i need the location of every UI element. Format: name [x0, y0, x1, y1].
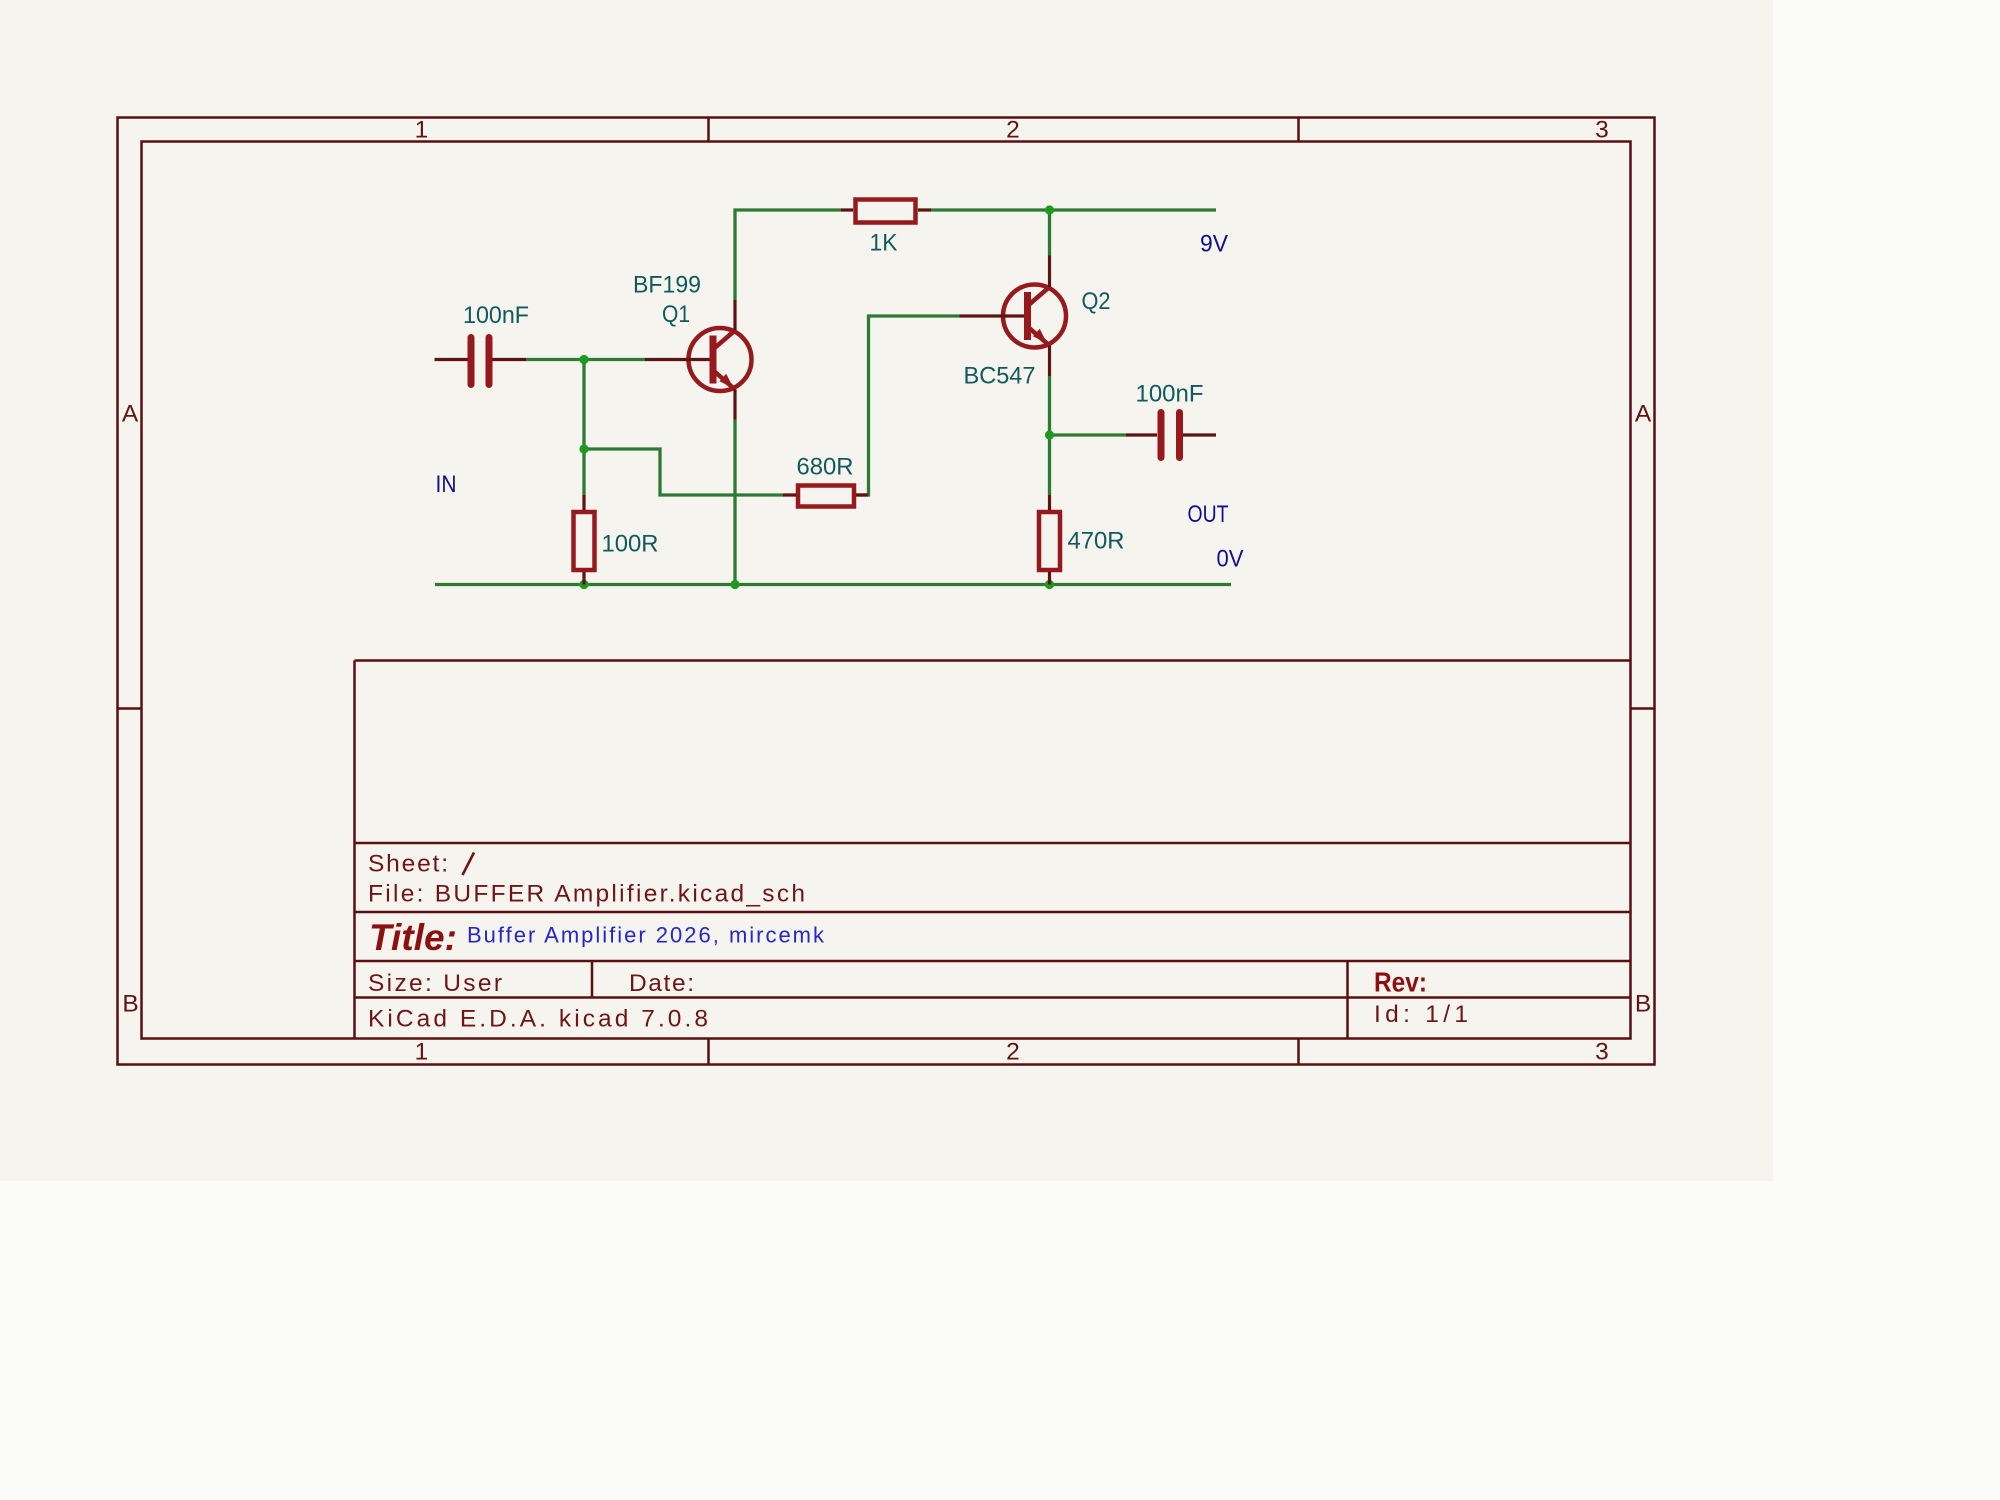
svg-text:A: A — [122, 401, 139, 428]
svg-text:2: 2 — [1006, 1039, 1020, 1066]
svg-text:3: 3 — [1595, 117, 1609, 144]
svg-text:IN: IN — [436, 471, 457, 498]
svg-text:Sheet:: Sheet: — [368, 851, 448, 878]
svg-text:Rev:: Rev: — [1374, 967, 1427, 998]
svg-text:BC547: BC547 — [964, 363, 1036, 390]
svg-text:Q2: Q2 — [1082, 288, 1111, 315]
svg-text:1: 1 — [415, 117, 429, 144]
svg-text:100R: 100R — [602, 531, 659, 558]
svg-text:470R: 470R — [1068, 528, 1125, 555]
svg-text:Date:: Date: — [629, 970, 694, 997]
svg-text:680R: 680R — [797, 454, 854, 481]
svg-text:Size: User: Size: User — [368, 970, 502, 997]
svg-text:9V: 9V — [1200, 231, 1229, 258]
svg-text:Title:: Title: — [369, 917, 457, 958]
svg-text:B: B — [1635, 991, 1651, 1018]
svg-text:OUT: OUT — [1188, 501, 1229, 528]
svg-text:1: 1 — [415, 1039, 429, 1066]
svg-text:0V: 0V — [1217, 546, 1245, 573]
svg-text:A: A — [1635, 401, 1652, 428]
svg-text:BF199: BF199 — [633, 272, 701, 299]
svg-text:B: B — [122, 991, 138, 1018]
svg-text:1K: 1K — [870, 230, 899, 257]
svg-text:100nF: 100nF — [463, 302, 529, 329]
svg-text:100nF: 100nF — [1136, 381, 1204, 408]
svg-text:3: 3 — [1595, 1039, 1609, 1066]
svg-text:2: 2 — [1006, 117, 1020, 144]
svg-text:Q1: Q1 — [662, 301, 690, 328]
